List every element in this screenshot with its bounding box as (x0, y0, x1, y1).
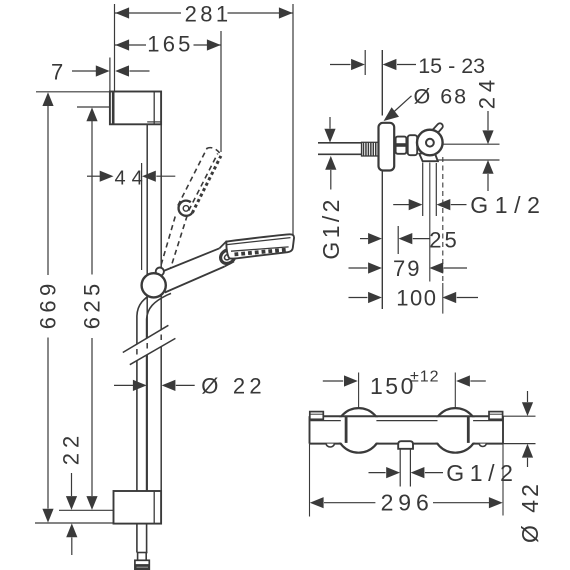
escutcheon flange (379, 123, 395, 171)
extension line body bottom right (dia 42) (503, 443, 536, 445)
svg-text:25: 25 (429, 227, 459, 252)
extension line hand shower mount position (165) (220, 31, 222, 152)
dimension 7 (51, 60, 150, 85)
body joint right (467, 416, 470, 443)
hose right edge (147, 293, 171, 552)
extension line body top right (dia 42) (503, 415, 536, 417)
outlet centreline (429, 163, 431, 282)
dashed hand shower head tip (207, 148, 220, 154)
label diameter 68 leader (384, 84, 469, 121)
thermostat body interior (310, 417, 502, 442)
wall bracket top (110, 92, 161, 125)
dimension G1/2 bottom (369, 460, 519, 486)
svg-text:G1/2: G1/2 (470, 192, 546, 218)
hose end fitting (135, 553, 149, 570)
dimension 100 (349, 285, 479, 310)
hand shower spray band (231, 247, 289, 251)
body joint left (345, 416, 348, 443)
thermostat body right end (502, 416, 504, 443)
valve socket (408, 135, 418, 155)
hand shower handle bottom edge (165, 267, 225, 293)
wall line (valve) (381, 50, 383, 309)
extension line outlet right (G1/2) (435, 163, 437, 216)
inlet pipe (318, 143, 363, 155)
union nut circle left (336, 408, 381, 453)
svg-text:Ø 42: Ø 42 (517, 481, 543, 543)
valve lever (435, 126, 440, 132)
hand shower pivot ring (218, 247, 238, 266)
svg-text:15 - 23: 15 - 23 (418, 54, 485, 78)
thermostat body bottom edge (310, 443, 504, 445)
extension line bracket mid (625/22) (59, 509, 114, 511)
svg-text:44: 44 (115, 167, 149, 189)
holder knob (156, 268, 164, 276)
check valve cap left (326, 444, 334, 447)
extension line main left (wall/rail ref) (114, 4, 116, 92)
thermostat body top edge (310, 415, 504, 417)
rail slider holder (142, 273, 166, 297)
dimension 25 (360, 227, 460, 252)
rail left edge (146, 124, 148, 491)
rail break symbol (121, 325, 178, 364)
body inner line (311, 420, 503, 422)
dashed hand shower head left edge (178, 148, 207, 206)
thermostat body left end (309, 416, 311, 443)
dimension 44 (87, 167, 175, 189)
dashed hand shower head inner edge (189, 154, 218, 211)
extension line outlet bottom right (24) (438, 159, 500, 161)
dimension G1/2 outlet (right) (393, 192, 546, 218)
dimension 625 (80, 107, 105, 510)
extension line rail top (669) (36, 91, 110, 93)
hand shower cone top (220, 241, 227, 248)
extension line handle front (100) (442, 157, 444, 314)
valve foot (419, 151, 438, 161)
svg-text:625: 625 (80, 279, 105, 329)
extension line body left (296) (309, 444, 311, 517)
extension line hand shower centre (44) (141, 163, 143, 270)
svg-text:79: 79 (393, 256, 421, 281)
hand shower spray teeth (235, 250, 287, 255)
extension line circle centre left (150) (358, 373, 360, 409)
extension line wall min (15-23) (364, 50, 366, 75)
dimension 150 plus/minus 12 (323, 369, 486, 400)
inlet pipe thread (362, 142, 379, 156)
svg-text:Ø 68: Ø 68 (414, 84, 469, 108)
outlet stub (398, 441, 413, 449)
dimension 281 (115, 2, 293, 27)
extension line shower head tip (281) (292, 4, 294, 236)
valve ball (417, 130, 443, 156)
connector nut (396, 137, 407, 154)
hose left edge (137, 292, 154, 553)
dimension 15-23 (330, 54, 485, 78)
check valve cap right (479, 444, 486, 447)
extension line bracket outer edge (7mm) (109, 58, 111, 92)
extension line rail upper (625) (77, 106, 112, 108)
svg-text:7: 7 (51, 60, 63, 85)
svg-text:150: 150 (370, 373, 416, 399)
svg-text:G1/2: G1/2 (318, 196, 344, 259)
extension line outlet left (G1/2 bottom) (399, 449, 401, 487)
extension line outlet left (G1/2) (422, 163, 424, 217)
dimension 22 (left) (59, 431, 84, 555)
svg-text:22: 22 (59, 431, 84, 465)
svg-text:G1/2: G1/2 (446, 460, 518, 486)
svg-text:±12: ±12 (410, 369, 440, 386)
dashed hand shower pivot ring (179, 201, 193, 216)
svg-text:165: 165 (147, 32, 193, 57)
extension line 25 (397, 226, 399, 254)
dimension diameter 42 (517, 391, 543, 543)
extension line outlet right (G1/2 bottom) (409, 449, 411, 487)
dimension 165 (115, 32, 221, 57)
svg-text:Ø 22: Ø 22 (201, 373, 265, 398)
dimension diameter 22 rail (114, 373, 266, 398)
extension line body right (296) (502, 444, 504, 516)
svg-text:296: 296 (381, 489, 434, 515)
dimension 296 (310, 489, 503, 515)
union nut circle right (433, 408, 478, 453)
dashed hand shower handle right edge (171, 216, 188, 269)
wall union tab left (310, 412, 324, 420)
dimension 669 (36, 92, 61, 522)
extension line rail bottom (669/22) (35, 522, 114, 524)
dimension 24 (474, 75, 499, 191)
svg-text:669: 669 (36, 279, 61, 329)
hand shower head crease (227, 238, 291, 245)
extension line valve centre right (24) (443, 143, 500, 145)
hand shower handle top edge (159, 248, 220, 273)
hand shower cone bottom (225, 262, 235, 267)
dashed hand shower handle left edge (161, 217, 175, 267)
svg-text:281: 281 (185, 2, 232, 27)
wall union tab right (489, 412, 503, 420)
dimension 79 (349, 256, 468, 281)
hand shower head body (226, 234, 294, 258)
extension line circle centre right (150) (454, 373, 456, 409)
dashed hand shower spray teeth (192, 156, 221, 213)
svg-text:100: 100 (396, 285, 437, 310)
wall bracket bottom (114, 491, 162, 524)
svg-text:24: 24 (474, 75, 499, 109)
dimension G1/2 inlet (left) (318, 117, 344, 260)
rail right edge (160, 124, 162, 491)
